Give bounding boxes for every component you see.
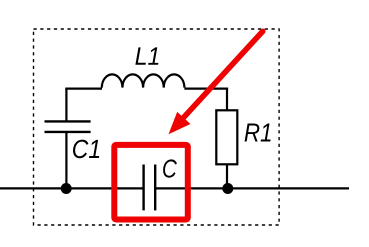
capacitor C bbox=[144, 165, 156, 211]
red highlight box bbox=[114, 145, 188, 220]
junction node left bbox=[61, 183, 72, 194]
wire bottom rail right segment bbox=[155, 187, 349, 189]
wire top rail left segment bbox=[65, 87, 102, 89]
wire C1 to bottom rail bbox=[65, 132, 67, 189]
label R1 bbox=[245, 124, 271, 142]
junction node right bbox=[222, 183, 233, 194]
wire right vertical (top rail to R1) bbox=[226, 88, 228, 111]
resistor R1 bbox=[216, 110, 237, 164]
inductor L1 bbox=[102, 74, 185, 87]
wire top rail right segment bbox=[184, 87, 228, 89]
wire top-left vertical (top rail to C1) bbox=[65, 89, 67, 121]
label C1 bbox=[73, 140, 99, 159]
wire R1 to bottom rail bbox=[226, 164, 228, 188]
capacitor C1 bbox=[45, 121, 91, 131]
wire bottom rail left segment bbox=[0, 187, 144, 189]
red arrow bbox=[169, 31, 263, 134]
dashed enclosure bbox=[34, 29, 280, 225]
label L1 bbox=[135, 47, 158, 64]
label C bbox=[163, 159, 177, 177]
